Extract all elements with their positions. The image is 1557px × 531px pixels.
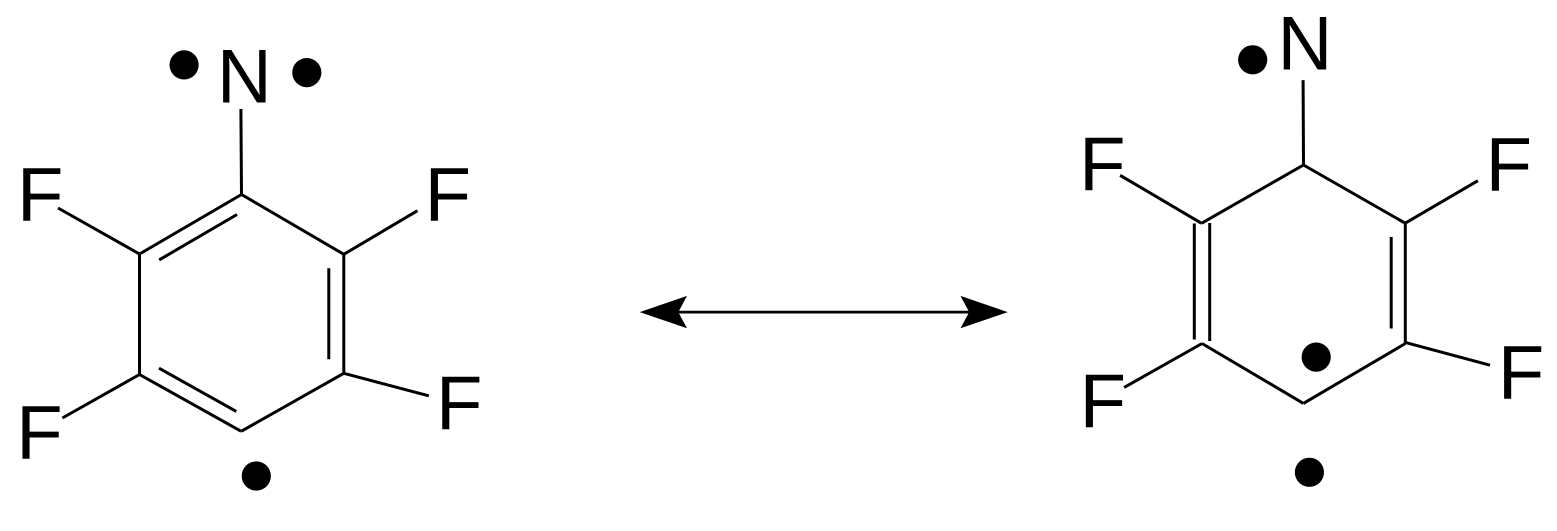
left structure: radical dot left of N bbox=[170, 50, 199, 79]
right structure: ring bond C2-C3 double left line bbox=[1193, 224, 1196, 340]
resonance arrow left head bbox=[640, 296, 687, 328]
left structure: ring bond C2-C3 (single) bbox=[138, 254, 141, 375]
right structure: bond N to ring C1 bbox=[1302, 80, 1305, 165]
left structure: bond C3-F lower-left bbox=[62, 375, 139, 419]
left structure: ring bond C1-C2 outer (double) bbox=[140, 195, 242, 255]
right structure: radical dot below ring bbox=[1295, 458, 1324, 487]
left structure: ring bond C5-C6 outer (double) bbox=[342, 254, 345, 373]
svg-text:F: F bbox=[17, 153, 63, 238]
right structure: bond C2-F upper-left bbox=[1120, 175, 1201, 223]
right structure: ring bond C4-C5 (single) bbox=[1303, 344, 1405, 404]
right structure: radical dot inside ring bbox=[1302, 343, 1331, 372]
svg-text:F: F bbox=[1079, 122, 1125, 207]
svg-text:F: F bbox=[16, 391, 62, 476]
right structure: bond C3-F lower-left bbox=[1124, 344, 1202, 388]
right structure: ring bond C5-C6 inner line bbox=[1390, 237, 1393, 329]
left structure: bond C6-F upper-right bbox=[344, 211, 418, 255]
left structure: ring bond C6-C1 (single) bbox=[242, 195, 344, 255]
left structure: radical dot below C4 bbox=[242, 461, 271, 490]
svg-text:N: N bbox=[217, 35, 272, 120]
left structure: bond C2-F upper-left bbox=[58, 208, 140, 254]
right structure: ring bond C6-C1 (single) bbox=[1304, 165, 1406, 223]
svg-text:N: N bbox=[1278, 2, 1333, 87]
resonance arrow shaft bbox=[645, 311, 1002, 314]
svg-text:F: F bbox=[425, 153, 471, 238]
left structure: ring bond C4-C5 (single) bbox=[241, 373, 344, 431]
right structure: bond C5-F lower-right bbox=[1405, 342, 1490, 365]
svg-text:F: F bbox=[1498, 331, 1544, 416]
left structure: ring bond C1-C2 inner line bbox=[159, 215, 237, 260]
left structure: ring bond C3-C4 inner line bbox=[159, 368, 236, 411]
left structure: radical dot right of N bbox=[292, 58, 321, 87]
right structure: ring bond C2-C3 double right line bbox=[1208, 223, 1211, 341]
resonance arrow right head bbox=[961, 296, 1008, 328]
left structure: ring bond C5-C6 inner line bbox=[327, 268, 330, 359]
svg-text:F: F bbox=[436, 361, 482, 446]
right structure: radical dot left of N bbox=[1238, 45, 1267, 74]
svg-text:F: F bbox=[1080, 359, 1126, 444]
right structure: ring bond C1-C2 (single) bbox=[1202, 165, 1304, 223]
svg-text:F: F bbox=[1486, 123, 1532, 208]
left structure: bond N to ring C1 bbox=[239, 109, 243, 195]
right structure: ring bond C3-C4 (single) bbox=[1202, 344, 1303, 404]
left structure: bond C5-F lower-right bbox=[344, 373, 429, 396]
right structure: bond C6-F upper-right bbox=[1405, 181, 1478, 224]
left structure: ring bond C3-C4 outer (double) bbox=[140, 375, 242, 432]
right structure: ring bond C5-C6 outer (double) bbox=[1404, 223, 1407, 343]
